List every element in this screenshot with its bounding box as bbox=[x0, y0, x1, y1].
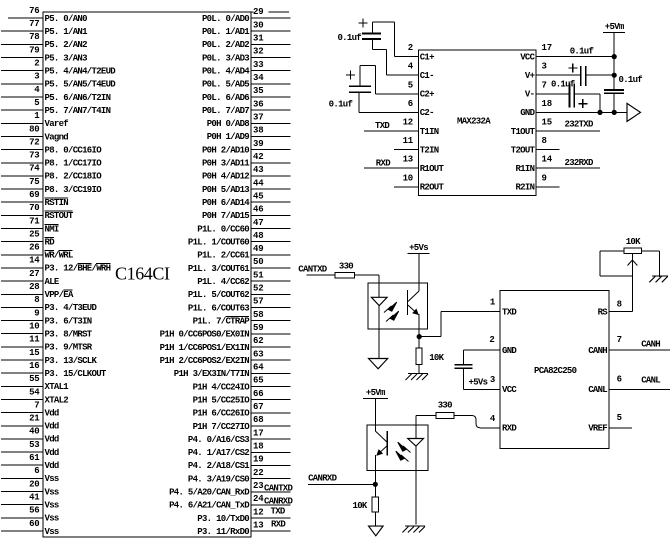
svg-text:66: 66 bbox=[253, 389, 263, 399]
svg-text:CANL: CANL bbox=[641, 375, 660, 385]
U2 pin 67 P1H 6/CC26IO (right row 30) bbox=[193, 402, 291, 419]
svg-text:0.1uf: 0.1uf bbox=[551, 80, 575, 90]
svg-text:18: 18 bbox=[542, 99, 552, 109]
svg-text:Vdd: Vdd bbox=[45, 422, 59, 432]
svg-text:P4. 0/A16/CS3: P4. 0/A16/CS3 bbox=[188, 435, 249, 445]
U4 pin 2 GND bbox=[463, 335, 517, 364]
U2 pin 36 P0L. 7/AD7 (right row 7) bbox=[202, 99, 291, 116]
svg-text:2: 2 bbox=[34, 59, 39, 69]
U2 pin 27 ALE (left row 20) bbox=[1, 269, 60, 287]
svg-text:34: 34 bbox=[253, 73, 264, 83]
resistor R3 330 bbox=[436, 400, 454, 418]
U2 pin 11 P3. 9/MTSR (left row 25) bbox=[1, 335, 93, 353]
opto-coupler U5 body bbox=[367, 425, 428, 470]
U1 pin 17 VCC bbox=[520, 43, 614, 62]
wire C164CI top-right extension bbox=[251, 11, 289, 13]
U2 pin 62 P1H 1/CC6POS1/EX1IN (right row 25) bbox=[160, 336, 291, 353]
U2 pin 63 P1H 2/CC6POS2/EX2IN (right row 26) bbox=[160, 349, 291, 366]
capacitor C4 0.1uf at U1 V- bbox=[551, 80, 600, 113]
svg-text:CANRXD: CANRXD bbox=[308, 473, 338, 483]
U2 pin 52 P1L. 5/COUT62 (right row 21) bbox=[188, 284, 291, 301]
svg-text:TXD: TXD bbox=[271, 507, 286, 517]
svg-text:P1L. 3/COUT61: P1L. 3/COUT61 bbox=[188, 264, 250, 274]
svg-text:58: 58 bbox=[253, 310, 263, 320]
svg-text:T2OUT: T2OUT bbox=[511, 145, 536, 155]
U1 pin 10 R2OUT bbox=[394, 173, 444, 192]
resistor R4 10K at U5 emitter bbox=[353, 497, 379, 512]
svg-text:P0H 2/AD10: P0H 2/AD10 bbox=[202, 145, 249, 155]
U2 pin 1 Varef (left row 8) bbox=[1, 111, 68, 129]
svg-text:29: 29 bbox=[253, 7, 263, 17]
svg-text:GND: GND bbox=[502, 346, 517, 356]
svg-text:5: 5 bbox=[34, 98, 39, 108]
svg-text:1: 1 bbox=[34, 111, 40, 121]
svg-text:54: 54 bbox=[29, 387, 40, 397]
U2 pin 54 XTAL2 (left row 29) bbox=[1, 387, 68, 405]
svg-text:55: 55 bbox=[29, 374, 39, 384]
resistor R1 330 bbox=[335, 261, 355, 278]
svg-text:9: 9 bbox=[34, 308, 39, 318]
svg-text:Vss: Vss bbox=[45, 514, 59, 524]
U2 pin 44 P0H 5/AD13 (right row 13) bbox=[202, 178, 291, 195]
U2 pin 19 P4. 2/A18/CS1 (right row 34) bbox=[188, 455, 291, 472]
svg-text:C2-: C2- bbox=[420, 108, 434, 118]
svg-text:4: 4 bbox=[490, 414, 496, 424]
svg-text:0.1uf: 0.1uf bbox=[329, 100, 353, 110]
svg-text:65: 65 bbox=[253, 376, 263, 386]
svg-text:79: 79 bbox=[29, 45, 39, 55]
capacitor C5 on +5Vm rail bbox=[604, 90, 624, 93]
svg-text:11: 11 bbox=[29, 335, 40, 345]
wire R4 to ground bbox=[374, 512, 376, 526]
svg-text:P3. 13/SCLK: P3. 13/SCLK bbox=[45, 356, 98, 366]
U2 pin 64 P1H 3/EX3IN/T7IN (right row 27) bbox=[174, 363, 291, 380]
svg-text:28: 28 bbox=[29, 282, 39, 292]
U2 pin 49 P1L. 2/CC61 (right row 18) bbox=[197, 244, 290, 261]
svg-text:6: 6 bbox=[408, 99, 413, 109]
U1 pin 15 T1OUT bbox=[511, 118, 600, 137]
junction dots on +5Vm / GND net bbox=[612, 54, 617, 59]
svg-text:NMI: NMI bbox=[45, 224, 59, 234]
svg-text:P8. 0/CC16IO: P8. 0/CC16IO bbox=[45, 145, 103, 155]
svg-text:64: 64 bbox=[253, 363, 264, 373]
svg-text:RS: RS bbox=[598, 307, 609, 317]
wire R1 to U3 LED anode bbox=[355, 275, 380, 283]
svg-text:P1H 1/CC6POS1/EX1IN: P1H 1/CC6POS1/EX1IN bbox=[160, 343, 250, 353]
U2 pin 40 Vdd (left row 32) bbox=[1, 427, 59, 445]
svg-text:0.1uf: 0.1uf bbox=[337, 33, 361, 43]
U2 pin 39 P0H 2/AD10 (right row 10) bbox=[202, 139, 291, 156]
svg-text:61: 61 bbox=[29, 453, 40, 463]
svg-text:51: 51 bbox=[253, 270, 264, 280]
U1 pin 3 V+ bbox=[525, 62, 581, 81]
IC U1 MAX232A body bbox=[418, 50, 536, 196]
svg-text:P0L. 1/AD1: P0L. 1/AD1 bbox=[202, 27, 250, 37]
svg-text:53: 53 bbox=[29, 440, 39, 450]
svg-text:10K: 10K bbox=[626, 237, 641, 247]
wire R3 to U4 RXD with jog bbox=[454, 416, 500, 428]
svg-text:C1+: C1+ bbox=[420, 52, 434, 62]
svg-text:C1-: C1- bbox=[420, 71, 434, 81]
U2 pin 65 P1H 4/CC24IO (right row 28) bbox=[193, 376, 291, 393]
svg-text:10K: 10K bbox=[353, 501, 368, 511]
wire CANTXD to R1 bbox=[307, 274, 336, 276]
U2 pin 2 P5. 4/AN4/T2EUD (left row 4) bbox=[1, 59, 116, 77]
U1 pin 2 C1+ bbox=[394, 43, 434, 62]
svg-text:P4. 1/A17/CS2: P4. 1/A17/CS2 bbox=[188, 448, 249, 458]
ground (hatched) at R2 bbox=[408, 373, 428, 375]
svg-text:42: 42 bbox=[253, 152, 263, 162]
svg-text:R1OUT: R1OUT bbox=[420, 164, 445, 174]
svg-text:37: 37 bbox=[253, 113, 263, 123]
svg-text:40: 40 bbox=[29, 427, 39, 437]
U2 pin 69 RSTIN (left row 14) bbox=[1, 190, 68, 208]
U2 pin 32 P0L. 3/AD3 (right row 3) bbox=[202, 47, 291, 64]
svg-text:7: 7 bbox=[542, 80, 547, 90]
svg-text:73: 73 bbox=[29, 151, 39, 161]
wire U3 LED cathode to ground bbox=[378, 329, 380, 358]
U2 pin 72 P8. 0/CC16IO (left row 10) bbox=[1, 137, 102, 155]
svg-text:7: 7 bbox=[34, 400, 39, 410]
U2 pin 45 P0H 6/AD14 (right row 14) bbox=[202, 191, 291, 208]
U2 pin 57 P1L. 6/COUT63 (right row 22) bbox=[188, 297, 291, 314]
svg-text:P0H 0/AD8: P0H 0/AD8 bbox=[207, 119, 250, 129]
svg-text:+5Vs: +5Vs bbox=[469, 377, 488, 387]
svg-text:17: 17 bbox=[542, 43, 552, 53]
svg-text:Vdd: Vdd bbox=[45, 448, 59, 458]
potentiometer R5 10K at U4 RS bbox=[600, 237, 659, 277]
svg-text:P3. 9/MTSR: P3. 9/MTSR bbox=[45, 343, 93, 353]
svg-text:P8. 2/CC18IO: P8. 2/CC18IO bbox=[45, 172, 103, 182]
svg-text:7: 7 bbox=[617, 335, 622, 345]
U4 pin 4 RXD bbox=[490, 414, 518, 434]
svg-text:8: 8 bbox=[617, 300, 622, 310]
svg-text:P3. 4/T3EUD: P3. 4/T3EUD bbox=[45, 303, 98, 313]
U2 pin 74 P8. 2/CC18IO (left row 12) bbox=[1, 164, 102, 182]
svg-text:CANTXD: CANTXD bbox=[298, 265, 328, 275]
U1 pin 14 R1IN bbox=[515, 155, 600, 174]
svg-text:Vss: Vss bbox=[45, 487, 59, 497]
svg-text:33: 33 bbox=[253, 60, 263, 70]
U1 pin 5 C2+ bbox=[376, 80, 435, 99]
U2 pin 73 P8. 1/CC17IO (left row 11) bbox=[1, 151, 102, 169]
svg-text:17: 17 bbox=[253, 428, 263, 438]
svg-text:Varef: Varef bbox=[45, 119, 69, 129]
svg-text:5: 5 bbox=[408, 80, 413, 90]
U1 pin 8 T2OUT bbox=[511, 136, 560, 155]
svg-text:P0H 5/AD13: P0H 5/AD13 bbox=[202, 185, 249, 195]
svg-text:P0H 6/AD14: P0H 6/AD14 bbox=[202, 198, 250, 208]
svg-text:15: 15 bbox=[542, 118, 552, 128]
svg-text:P1L. 1/COUT60: P1L. 1/COUT60 bbox=[188, 238, 249, 248]
U2 pin 18 P4. 1/A17/CS2 (right row 33) bbox=[188, 442, 291, 459]
U2 pin 61 Vdd (left row 34) bbox=[1, 453, 59, 471]
svg-text:16: 16 bbox=[29, 361, 39, 371]
svg-text:VPP/EA: VPP/EA bbox=[45, 290, 75, 300]
svg-text:60: 60 bbox=[29, 519, 39, 529]
U2 pin 46 P0H 7/AD15 (right row 15) bbox=[202, 205, 291, 222]
svg-text:P1L. 4/CC62: P1L. 4/CC62 bbox=[197, 277, 249, 287]
U2 pin 8 P3. 4/T3EUD (left row 22) bbox=[1, 295, 98, 313]
svg-text:C2+: C2+ bbox=[420, 90, 434, 100]
svg-text:23: 23 bbox=[253, 481, 263, 491]
svg-text:VCC: VCC bbox=[520, 52, 535, 62]
svg-text:8: 8 bbox=[34, 295, 39, 305]
svg-text:11: 11 bbox=[403, 136, 414, 146]
svg-text:63: 63 bbox=[253, 349, 263, 359]
U2 pin 66 P1H 5/CC25IO (right row 29) bbox=[193, 389, 291, 406]
svg-text:46: 46 bbox=[253, 205, 263, 215]
svg-text:ALE: ALE bbox=[45, 277, 60, 287]
svg-text:76: 76 bbox=[29, 6, 39, 16]
U1 pin 9 R2IN bbox=[515, 173, 559, 192]
svg-text:P1L. 6/COUT63: P1L. 6/COUT63 bbox=[188, 303, 249, 313]
svg-text:52: 52 bbox=[253, 284, 263, 294]
svg-text:3: 3 bbox=[34, 72, 39, 82]
svg-text:31: 31 bbox=[253, 34, 264, 44]
svg-text:P3. 11/RxD0: P3. 11/RxD0 bbox=[197, 527, 249, 537]
svg-text:41: 41 bbox=[29, 493, 40, 503]
U2 pin 41 Vss (left row 37) bbox=[1, 493, 59, 511]
svg-text:22: 22 bbox=[253, 468, 263, 478]
U2 pin 75 P8. 3/CC19IO (left row 13) bbox=[1, 177, 102, 195]
U1 pin 13 R1OUT bbox=[364, 155, 444, 174]
svg-text:PCA82C250: PCA82C250 bbox=[534, 366, 577, 376]
svg-text:P3. 12/BHE/WRH: P3. 12/BHE/WRH bbox=[45, 264, 111, 274]
svg-text:MAX232A: MAX232A bbox=[457, 117, 491, 127]
svg-text:T1IN: T1IN bbox=[420, 127, 439, 137]
svg-text:1: 1 bbox=[490, 298, 496, 308]
U2 pin 14 P3. 12/BHE/WRH (left row 19) bbox=[1, 256, 111, 274]
svg-text:14: 14 bbox=[542, 155, 553, 165]
svg-text:10: 10 bbox=[403, 173, 413, 183]
connector arrow (to DB9) on U1 GND net bbox=[627, 103, 641, 121]
svg-text:P5. 7/AN7/T4IN: P5. 7/AN7/T4IN bbox=[45, 106, 111, 116]
svg-text:P5. 4/AN4/T2EUD: P5. 4/AN4/T2EUD bbox=[45, 67, 117, 77]
U4 pin 6 CANL bbox=[588, 374, 670, 395]
svg-text:P1H 4/CC24IO: P1H 4/CC24IO bbox=[193, 382, 251, 392]
svg-text:RD: RD bbox=[45, 238, 56, 248]
ground (hatched) at U5 LED bbox=[405, 525, 425, 527]
svg-text:P1H 2/CC6POS2/EX2IN: P1H 2/CC6POS2/EX2IN bbox=[160, 356, 250, 366]
svg-text:48: 48 bbox=[253, 231, 263, 241]
svg-text:P1H 6/CC26IO: P1H 6/CC26IO bbox=[193, 409, 251, 419]
wire U5 LED top to R3 bbox=[416, 416, 436, 426]
U2 pin 29 P0L. 0/AD0 (right row 0) bbox=[202, 7, 291, 24]
ground (hatched) at R5 bbox=[652, 275, 668, 277]
U2 pin 20 Vss (left row 36) bbox=[1, 479, 59, 497]
U2 pin 80 Vagnd (left row 9) bbox=[1, 124, 68, 142]
svg-text:P0L. 7/AD7: P0L. 7/AD7 bbox=[202, 106, 249, 116]
opto-coupler U3 body bbox=[368, 283, 428, 329]
svg-text:0.1uf: 0.1uf bbox=[619, 75, 643, 85]
svg-text:12: 12 bbox=[403, 118, 413, 128]
svg-text:P1L. 5/COUT62: P1L. 5/COUT62 bbox=[188, 290, 249, 300]
U2 pin 4 P5. 6/AN6/T2IN (left row 6) bbox=[1, 85, 111, 103]
U2 pin 48 P1L. 1/COUT60 (right row 17) bbox=[188, 231, 291, 248]
svg-text:39: 39 bbox=[253, 139, 263, 149]
svg-text:GND: GND bbox=[520, 108, 535, 118]
svg-text:P5. 0/AN0: P5. 0/AN0 bbox=[45, 14, 88, 24]
svg-text:XTAL1: XTAL1 bbox=[45, 382, 70, 392]
svg-text:57: 57 bbox=[253, 297, 263, 307]
svg-text:P1H 5/CC25IO: P1H 5/CC25IO bbox=[193, 395, 251, 405]
U2 pin 58 P1L. 7/CTRAP (right row 23) bbox=[193, 310, 291, 327]
svg-text:14: 14 bbox=[29, 256, 40, 266]
svg-text:77: 77 bbox=[29, 19, 39, 29]
U2 pin 22 P4. 3/A19/CS0 (right row 35) bbox=[188, 468, 291, 485]
svg-text:18: 18 bbox=[253, 442, 263, 452]
svg-text:Vss: Vss bbox=[45, 527, 59, 537]
capacitor C2 0.1uf at U1 C2+/C2- bbox=[329, 66, 376, 113]
U2 pin 76 P5. 0/AN0 (left row 0) bbox=[8, 6, 87, 24]
U2 pin 28 VPP/EA (left row 21) bbox=[1, 282, 74, 300]
U2 pin 23 P4. 5/A20/CAN_RxD (right row 36) bbox=[169, 481, 290, 498]
svg-text:68: 68 bbox=[253, 415, 263, 425]
U2 pin 71 NMI (left row 16) bbox=[1, 216, 59, 234]
U4 pin 8 RS wire to potentiometer bbox=[598, 276, 633, 318]
wire U3 emitter to PCA82C250 TXD bbox=[419, 312, 500, 337]
svg-text:P4. 2/A18/CS1: P4. 2/A18/CS1 bbox=[188, 461, 250, 471]
svg-text:R2OUT: R2OUT bbox=[420, 183, 445, 193]
svg-text:T2IN: T2IN bbox=[420, 145, 439, 155]
svg-text:+5Vs: +5Vs bbox=[409, 243, 428, 253]
svg-text:P1L. 7/CTRAP: P1L. 7/CTRAP bbox=[193, 317, 251, 327]
svg-text:232RXD: 232RXD bbox=[565, 158, 595, 168]
svg-text:XTAL2: XTAL2 bbox=[45, 395, 69, 405]
power +5Vm rail (MAX232 side) bbox=[603, 22, 625, 112]
U2 pin 31 P0L. 2/AD2 (right row 2) bbox=[202, 34, 291, 51]
svg-text:P3. 6/T3IN: P3. 6/T3IN bbox=[45, 316, 92, 326]
U2 pin 24 P4. 6/A21/CAN_TxD (right row 37) bbox=[169, 494, 290, 511]
svg-text:P5. 5/AN5/T4EUD: P5. 5/AN5/T4EUD bbox=[45, 80, 117, 90]
svg-text:330: 330 bbox=[438, 400, 452, 410]
svg-text:19: 19 bbox=[253, 455, 263, 465]
svg-text:59: 59 bbox=[253, 323, 263, 333]
wire U5 LED cathode to ground bbox=[415, 470, 417, 524]
capacitor C3 0.1uf at U1 V+ bbox=[568, 64, 642, 87]
svg-text:4: 4 bbox=[408, 62, 414, 72]
svg-text:P4. 3/A19/CS0: P4. 3/A19/CS0 bbox=[188, 474, 249, 484]
svg-text:WR/WRL: WR/WRL bbox=[45, 251, 74, 261]
power +5Vm at opto U5 bbox=[363, 388, 388, 425]
svg-text:P8. 3/CC19IO: P8. 3/CC19IO bbox=[45, 185, 103, 195]
U1 pin 7 V- bbox=[525, 80, 569, 99]
svg-text:P0L. 0/AD0: P0L. 0/AD0 bbox=[202, 14, 249, 24]
U2 pin 35 P0L. 6/AD6 (right row 6) bbox=[202, 86, 291, 103]
U2 pin 16 P3. 15/CLKOUT (left row 27) bbox=[1, 361, 107, 379]
svg-text:71: 71 bbox=[29, 216, 40, 226]
svg-text:P4. 5/A20/CAN_RxD: P4. 5/A20/CAN_RxD bbox=[169, 488, 250, 498]
svg-text:35: 35 bbox=[253, 86, 263, 96]
svg-text:P3. 8/MRST: P3. 8/MRST bbox=[45, 330, 93, 340]
svg-text:4: 4 bbox=[34, 85, 40, 95]
U2 pin 51 P1L. 4/CC62 (right row 20) bbox=[197, 270, 290, 287]
svg-text:RSTOUT: RSTOUT bbox=[45, 211, 75, 221]
svg-text:P0H 3/AD11: P0H 3/AD11 bbox=[202, 159, 250, 169]
svg-text:6: 6 bbox=[617, 374, 622, 384]
svg-text:P5. 1/AN1: P5. 1/AN1 bbox=[45, 27, 89, 37]
U2 pin 79 P5. 3/AN3 (left row 3) bbox=[1, 45, 87, 63]
svg-text:P0L. 2/AD2: P0L. 2/AD2 bbox=[202, 40, 249, 50]
svg-text:62: 62 bbox=[253, 336, 263, 346]
svg-text:43: 43 bbox=[253, 165, 263, 175]
svg-text:232TXD: 232TXD bbox=[565, 120, 595, 130]
U2 pin 21 Vdd (left row 31) bbox=[1, 414, 59, 432]
U2 pin 15 P3. 13/SCLK (left row 26) bbox=[1, 348, 98, 366]
svg-text:6: 6 bbox=[34, 466, 39, 476]
ground (triangle) at R4 bbox=[369, 526, 384, 536]
svg-text:70: 70 bbox=[29, 203, 39, 213]
svg-text:P0L. 4/AD4: P0L. 4/AD4 bbox=[202, 66, 250, 76]
svg-text:3: 3 bbox=[542, 62, 547, 72]
svg-text:P3. 15/CLKOUT: P3. 15/CLKOUT bbox=[45, 369, 107, 379]
svg-text:P1L. 0/CC60: P1L. 0/CC60 bbox=[197, 224, 249, 234]
U2 pin 50 P1L. 3/COUT61 (right row 19) bbox=[188, 257, 291, 274]
U4 pin 3 VCC with +5Vs net label bbox=[469, 375, 518, 395]
U1 pin 12 T1IN bbox=[364, 118, 439, 137]
U2 pin 77 P5. 1/AN1 (left row 1) bbox=[1, 19, 88, 37]
svg-text:69: 69 bbox=[29, 190, 39, 200]
IC U2 C164CI microcontroller body bbox=[43, 12, 251, 537]
U1 pin 18 GND bbox=[520, 99, 627, 118]
svg-text:Vdd: Vdd bbox=[45, 435, 59, 445]
svg-text:10K: 10K bbox=[429, 353, 444, 363]
svg-text:V-: V- bbox=[525, 90, 534, 100]
U2 pin 60 Vss (left row 39) bbox=[1, 519, 59, 537]
svg-text:13: 13 bbox=[253, 520, 263, 530]
svg-text:36: 36 bbox=[253, 99, 263, 109]
svg-text:RXD: RXD bbox=[376, 158, 391, 168]
svg-text:P0H 7/AD15: P0H 7/AD15 bbox=[202, 211, 249, 221]
svg-text:25: 25 bbox=[29, 230, 39, 240]
resistor R2 10K pulldown at U3 emitter bbox=[416, 348, 445, 364]
svg-text:P1H 0/CC6POS0/EX0IN: P1H 0/CC6POS0/EX0IN bbox=[160, 330, 250, 340]
junction U3 emitter node bbox=[417, 329, 422, 348]
svg-text:P1H 3/EX3IN/T7IN: P1H 3/EX3IN/T7IN bbox=[174, 369, 250, 379]
svg-text:+5Vm: +5Vm bbox=[605, 22, 625, 32]
U2 pin 33 P0L. 4/AD4 (right row 4) bbox=[202, 60, 291, 77]
svg-text:T1OUT: T1OUT bbox=[511, 127, 536, 137]
svg-text:CANTXD: CANTXD bbox=[264, 483, 294, 493]
U2 pin 9 P3. 6/T3IN (left row 23) bbox=[1, 308, 92, 326]
capacitor C6 at U4 GND/VCC bbox=[454, 365, 500, 390]
svg-text:13: 13 bbox=[403, 155, 413, 165]
svg-text:CANL: CANL bbox=[588, 385, 607, 395]
U2 pin 17 P4. 0/A16/CS3 (right row 32) bbox=[188, 428, 291, 445]
U2 pin 47 P1L. 0/CC60 (right row 16) bbox=[197, 218, 290, 235]
svg-text:49: 49 bbox=[253, 244, 263, 254]
svg-text:Vss: Vss bbox=[45, 474, 59, 484]
svg-text:8: 8 bbox=[542, 136, 547, 146]
svg-text:20: 20 bbox=[29, 479, 39, 489]
U1 pin 6 C2- bbox=[359, 99, 434, 118]
U4 pin 7 CANH bbox=[588, 335, 670, 356]
svg-text:56: 56 bbox=[29, 506, 39, 516]
svg-text:RXD: RXD bbox=[271, 520, 286, 530]
U4 pin 1 TXD bbox=[490, 298, 518, 318]
svg-text:2: 2 bbox=[489, 335, 494, 345]
svg-text:78: 78 bbox=[29, 32, 39, 42]
U2 pin 12 P3. 10/TxD0 (right row 38) bbox=[197, 507, 290, 524]
U1 pin 11 T2IN bbox=[394, 136, 439, 155]
svg-text:R2IN: R2IN bbox=[515, 183, 534, 193]
svg-text:P0L. 3/AD3: P0L. 3/AD3 bbox=[202, 53, 249, 63]
svg-text:38: 38 bbox=[253, 126, 263, 136]
svg-text:TXD: TXD bbox=[375, 121, 390, 131]
svg-text:30: 30 bbox=[253, 20, 263, 30]
wire CANRXD node bbox=[308, 470, 378, 497]
